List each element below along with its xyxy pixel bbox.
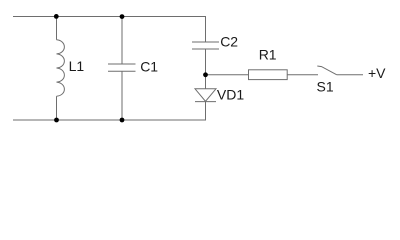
svg-text:C2: C2 — [220, 33, 238, 49]
svg-text:+V: +V — [368, 65, 386, 81]
svg-text:VD1: VD1 — [217, 86, 244, 102]
svg-text:C1: C1 — [140, 59, 158, 75]
svg-text:R1: R1 — [259, 47, 277, 63]
svg-text:S1: S1 — [317, 78, 334, 94]
svg-text:L1: L1 — [69, 58, 85, 74]
